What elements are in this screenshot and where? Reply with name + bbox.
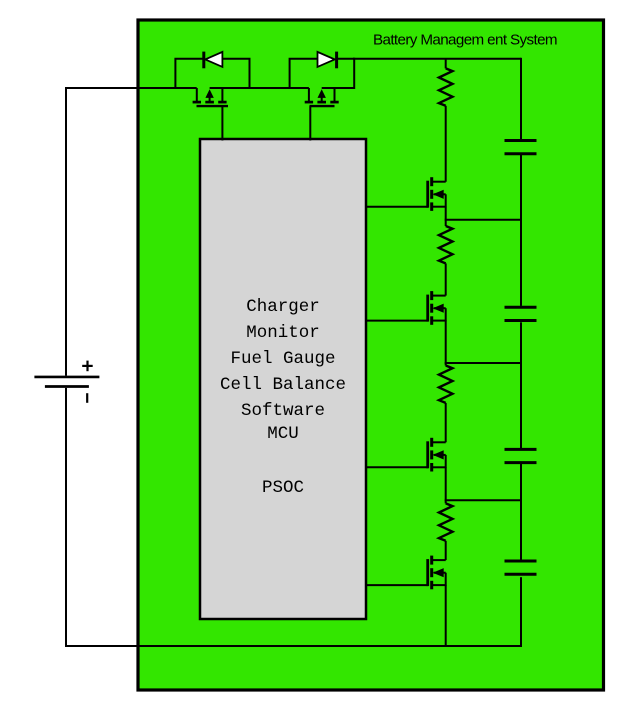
N-MOSFET Q5 xyxy=(428,438,446,472)
wire: Q1 drain to Q2 source xyxy=(210,87,309,89)
P-MOSFET Q1 xyxy=(193,88,227,102)
wire: node 2 junction xyxy=(445,362,522,364)
N-MOSFET Q6 xyxy=(428,556,446,590)
wire: right rail below C3 xyxy=(520,463,522,560)
wire: R4 top lead xyxy=(445,500,447,503)
svg-text:Software: Software xyxy=(241,401,325,421)
wire: R1 top lead xyxy=(445,59,447,69)
wire: R2 top lead xyxy=(445,220,447,226)
diode D2 left leg wire xyxy=(290,59,318,88)
wire: Q4 gate to MCU xyxy=(365,320,428,322)
wire: battery top to Q1 source xyxy=(65,87,197,89)
battery B1 plates xyxy=(34,377,99,387)
capacitor C4 (cell 4) xyxy=(505,561,537,574)
wire: R4 to Q6 drain xyxy=(445,541,447,560)
wire: R3 top lead xyxy=(445,363,447,366)
wire: Q6 source to bottom rail xyxy=(445,585,447,647)
svg-text:Monitor: Monitor xyxy=(246,323,320,343)
wire: battery positive vertical xyxy=(65,88,67,376)
svg-text:Fuel Gauge: Fuel Gauge xyxy=(230,349,335,369)
wire: node 1 junction xyxy=(445,219,522,221)
capacitor C1 (cell 1) xyxy=(505,141,537,154)
wire: node 3 junction xyxy=(445,499,522,501)
wire: Q2 drain riser xyxy=(322,58,355,88)
MCU block (PSOC) xyxy=(200,139,366,619)
Q2 gate bar xyxy=(310,105,335,107)
diode D1 body xyxy=(205,52,222,67)
diode D1 cathode bar xyxy=(202,52,205,69)
wire: Q1 gate to MCU xyxy=(221,106,223,140)
resistor R1 xyxy=(439,68,453,105)
N-MOSFET Q3 xyxy=(428,177,446,211)
wire: top pack rail xyxy=(353,58,521,60)
wire: Q2 gate to MCU xyxy=(309,106,311,140)
wire: Q6 gate to MCU xyxy=(365,584,428,586)
wire: R3 to Q5 drain xyxy=(445,403,447,442)
N-MOSFET Q4 xyxy=(428,291,446,325)
wire: Q4 source to node2 xyxy=(445,321,447,363)
wire: Q3 source to node1 xyxy=(445,207,447,220)
diode D2 right leg wire xyxy=(337,58,355,60)
diode D2 body xyxy=(318,52,335,67)
wire: right rail below C1 xyxy=(520,155,522,306)
wire: Q5 source to node3 xyxy=(445,467,447,500)
svg-text:PSOC: PSOC xyxy=(262,478,304,498)
wire: Q5 gate to MCU xyxy=(365,466,428,468)
diode D1 right leg wire xyxy=(222,59,249,88)
resistor R2 xyxy=(439,226,453,263)
resistor R3 xyxy=(439,366,453,403)
wire: R2 to Q4 drain xyxy=(445,263,447,295)
wire: R1 to Q3 drain xyxy=(445,106,447,182)
resistor R4 xyxy=(439,503,453,540)
P-MOSFET Q2 xyxy=(305,88,339,102)
capacitor C2 (cell 2) xyxy=(505,307,537,320)
capacitor C3 (cell 3) xyxy=(505,449,537,462)
wire: right rail segment cell1 xyxy=(520,58,522,139)
diode D1 left leg wire xyxy=(175,59,203,88)
svg-text:MCU: MCU xyxy=(267,424,299,444)
battery - label xyxy=(86,393,88,403)
diode D2 cathode bar xyxy=(335,52,338,69)
wire: Q3 gate to MCU xyxy=(365,206,428,208)
wire: bottom return rail xyxy=(65,645,521,647)
svg-text:Charger: Charger xyxy=(246,297,320,317)
wire: battery negative vertical xyxy=(65,388,67,647)
Q1 gate bar xyxy=(197,105,229,107)
wire: right rail below C4 xyxy=(520,577,522,647)
svg-text:Battery Managem ent System: Battery Managem ent System xyxy=(373,32,557,49)
wire: right rail below C2 xyxy=(520,322,522,448)
svg-text:Cell Balance: Cell Balance xyxy=(220,375,346,395)
BMS enclosure box xyxy=(138,20,604,690)
battery + label xyxy=(82,361,93,372)
